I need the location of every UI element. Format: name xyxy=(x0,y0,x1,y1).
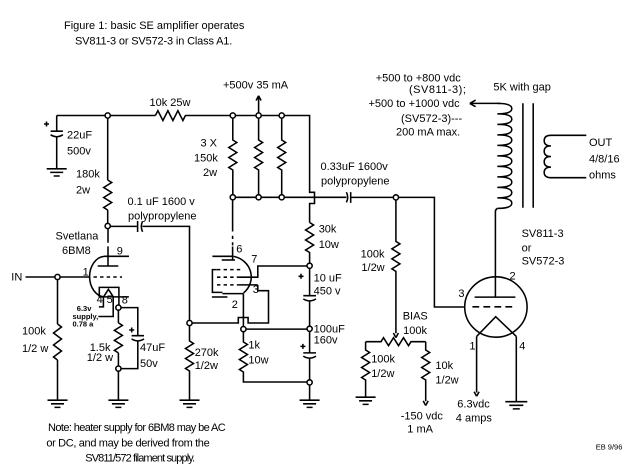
svg-text:100k: 100k xyxy=(22,326,46,338)
resistor 180k 2w xyxy=(104,180,112,210)
svg-text:8: 8 xyxy=(122,295,128,307)
capacitor C 22uF 500v plus sign xyxy=(44,122,49,127)
node junction 100uF bottom / 1k xyxy=(307,380,312,385)
svg-text:Svetlana: Svetlana xyxy=(56,231,100,243)
node junction B+ rail / 150k a xyxy=(230,113,235,118)
wire 0.33uF to output grid node xyxy=(351,196,393,198)
capacitor 100uF 160v plus sign xyxy=(300,344,305,349)
ground below 100uF xyxy=(300,400,320,407)
arrow -150vdc xyxy=(423,401,428,406)
svg-text:(SV811-3);: (SV811-3); xyxy=(409,84,466,96)
node junction pentode cathode / 1k xyxy=(241,327,246,332)
pentode U1b screen pin 7 wire xyxy=(239,266,307,277)
capacitor 47uF 50v plus sign xyxy=(129,328,134,333)
svg-text:4: 4 xyxy=(519,341,525,353)
node junction IN / 100k xyxy=(55,274,60,279)
capacitor 10uF 450v plus sign xyxy=(299,274,304,279)
svg-text:1/2w: 1/2w xyxy=(371,368,394,380)
svg-text:0.78 a: 0.78 a xyxy=(73,320,95,329)
svg-text:200 mA max.: 200 mA max. xyxy=(396,127,460,139)
node junction output grid xyxy=(393,195,398,200)
capacitor 10uF 450v xyxy=(303,268,316,326)
svg-text:polypropylene: polypropylene xyxy=(128,211,197,223)
svg-text:10k: 10k xyxy=(435,360,453,372)
resistor 1k 10w xyxy=(239,332,307,382)
wire 0.1uF to pentode grid node xyxy=(142,226,189,320)
node junction screen / 30k / 10uF xyxy=(307,263,312,268)
potentiometer BIAS 100k xyxy=(366,338,426,346)
wire 100uF node to ground xyxy=(309,385,311,400)
svg-text:5: 5 xyxy=(107,294,113,306)
triode U1a plate lead pin 9 xyxy=(107,229,109,266)
triode U1a envelope arc xyxy=(90,256,104,297)
ground below 22uF xyxy=(47,169,67,176)
node junction B+ rail / 150k b xyxy=(256,113,261,118)
svg-text:Note: heater supply for 6BM8 m: Note: heater supply for 6BM8 may be AC xyxy=(48,422,226,434)
wire top B+ rail left xyxy=(57,115,156,117)
node junction plate rail b xyxy=(256,195,261,200)
svg-text:4: 4 xyxy=(97,294,103,306)
svg-text:100k: 100k xyxy=(371,354,395,366)
wire pin8 to 1.5k xyxy=(117,310,119,323)
triode U1a grid dashed line pin 1 xyxy=(94,276,123,278)
wire pin8 to 47uF xyxy=(121,308,138,336)
resistor 100k 1/2w output grid xyxy=(392,200,400,333)
svg-text:100k: 100k xyxy=(403,325,427,337)
resistor 100k 1/2w bias left xyxy=(362,342,370,397)
pentode U1b envelope top stub xyxy=(212,255,233,257)
svg-text:2w: 2w xyxy=(76,185,90,197)
wire grid node to SV811 grid pin 3 xyxy=(399,197,464,307)
node junction 10uF / 100uF / cathode wire xyxy=(307,326,312,331)
svg-text:1/2 w: 1/2 w xyxy=(22,343,48,355)
wire pentode cathode to 100uF node xyxy=(246,328,307,330)
triode U1a cathode bracket xyxy=(99,287,119,305)
pentode U1b grid dashed row 1 xyxy=(217,269,242,271)
svg-text:1: 1 xyxy=(469,341,475,353)
svg-text:SV811/572 filament supply.: SV811/572 filament supply. xyxy=(85,453,195,465)
svg-text:SV572-3: SV572-3 xyxy=(522,256,565,268)
svg-text:polypropylene: polypropylene xyxy=(321,176,390,188)
svg-text:+500v 35 mA: +500v 35 mA xyxy=(223,80,289,92)
tube SV811-3 grid dashed line pin 3 xyxy=(472,306,514,308)
svg-text:OUT: OUT xyxy=(589,137,613,149)
tube SV811-3 plate bar pin 2 xyxy=(475,296,516,298)
svg-text:22uF: 22uF xyxy=(67,130,92,142)
svg-text:1k: 1k xyxy=(248,340,260,352)
svg-text:+500 to +800 vdc: +500 to +800 vdc xyxy=(376,73,462,85)
pentode U1b cathode line xyxy=(222,293,243,295)
svg-text:150k: 150k xyxy=(194,153,218,165)
tube SV811-3 envelope circle xyxy=(465,277,527,337)
triode U1a heater triangle xyxy=(104,289,114,296)
pentode U1b grid bracket xyxy=(212,270,222,293)
arrow transformer primary top to supply text xyxy=(470,100,500,107)
wire cathode node to ground xyxy=(117,371,119,400)
resistor 10k 25w xyxy=(155,111,185,121)
svg-text:10 uF: 10 uF xyxy=(314,273,342,285)
wire secondary top lead OUT xyxy=(551,134,586,136)
node junction pentode grid / 270k xyxy=(187,320,192,325)
wire pentode grid return with jog over cathode xyxy=(192,285,268,323)
resistor 100k 1/2w input xyxy=(54,324,62,360)
pentode U1b grid dashed row 3 xyxy=(217,284,239,286)
node junction cathode pin 8 xyxy=(116,305,121,310)
triode U1a heater pin 5 lead xyxy=(98,297,113,317)
wire filament pin 4 lead xyxy=(515,336,517,401)
svg-text:50v: 50v xyxy=(140,358,158,370)
capacitor C 22uF 500v xyxy=(51,116,63,169)
svg-text:160v: 160v xyxy=(314,335,338,347)
svg-text:SV811-3 or SV572-3 in Class A1: SV811-3 or SV572-3 in Class A1. xyxy=(75,36,232,48)
node junction B+ rail / 150k c xyxy=(279,113,284,118)
svg-text:EB 9/96: EB 9/96 xyxy=(596,443,623,452)
svg-text:BIAS: BIAS xyxy=(403,311,428,323)
capacitor 0.33uF 1600v polypropylene xyxy=(346,192,350,203)
pentode U1b cathode pin 2 lead xyxy=(242,294,244,327)
pentode U1b envelope bottom stub xyxy=(212,296,228,298)
node junction 180k / 0.1uF / triode plate xyxy=(105,223,110,228)
ground below bias 100k xyxy=(356,397,376,404)
svg-text:(SV572-3)---: (SV572-3)--- xyxy=(401,113,462,125)
pentode U1b plate bar xyxy=(222,259,235,261)
triode U1a plate bar xyxy=(98,265,119,267)
svg-text:10w: 10w xyxy=(319,239,339,251)
svg-text:2: 2 xyxy=(510,271,516,283)
node junction plate rail c xyxy=(279,195,284,200)
wire junction to 0.1uF cap xyxy=(110,225,137,227)
svg-text:1/2w: 1/2w xyxy=(361,262,384,274)
tube SV811-3 filament xyxy=(477,317,517,337)
pentode U1b grid dashed row 2 xyxy=(217,276,239,278)
arrow +500v supply xyxy=(256,96,261,113)
wire transformer primary bottom to plate xyxy=(495,208,497,297)
svg-text:7: 7 xyxy=(251,254,257,266)
capacitor 0.1uF 1600v polypropylene xyxy=(138,221,143,232)
svg-text:6BM8: 6BM8 xyxy=(62,245,91,257)
resistor 270k 1/2w xyxy=(186,326,194,400)
ground below cathode xyxy=(108,400,128,407)
ground below pin 4 xyxy=(505,402,527,409)
svg-text:100k: 100k xyxy=(361,249,385,261)
svg-text:-150 vdc: -150 vdc xyxy=(401,411,444,423)
svg-text:500v: 500v xyxy=(67,146,91,158)
svg-text:6: 6 xyxy=(236,244,242,256)
wire 180k bottom xyxy=(107,210,109,223)
ground below 270k xyxy=(180,400,200,407)
svg-text:10k 25w: 10k 25w xyxy=(150,97,191,109)
svg-text:or: or xyxy=(522,243,532,255)
svg-text:0.1 uF 1600 v: 0.1 uF 1600 v xyxy=(128,196,196,208)
resistor 10k 1/2w bias right xyxy=(422,342,430,402)
triode U1a envelope top stub xyxy=(104,255,129,257)
capacitor 100uF 160v xyxy=(303,331,316,379)
pentode U1b envelope arc xyxy=(234,256,252,293)
svg-text:2: 2 xyxy=(232,299,238,311)
svg-text:3: 3 xyxy=(253,284,259,296)
svg-text:10w: 10w xyxy=(248,355,268,367)
svg-text:Figure 1: basic SE amplifier o: Figure 1: basic SE amplifier operates xyxy=(64,20,245,32)
pentode U1b grid pin 3 wire solid xyxy=(239,284,258,286)
node junction plate rail a xyxy=(230,195,235,200)
svg-text:4/8/16: 4/8/16 xyxy=(589,153,620,165)
wire 100k to ground xyxy=(57,360,59,400)
svg-text:1/2 w: 1/2 w xyxy=(87,352,113,364)
wire top B+ rail right with jog over signal wire xyxy=(185,116,314,223)
svg-text:450 v: 450 v xyxy=(314,286,341,298)
svg-text:1/2w: 1/2w xyxy=(195,360,218,372)
svg-text:1/2w: 1/2w xyxy=(435,375,458,387)
svg-text:270k: 270k xyxy=(195,347,219,359)
svg-text:3: 3 xyxy=(458,288,464,300)
svg-text:IN: IN xyxy=(11,272,22,284)
svg-text:SV811-3: SV811-3 xyxy=(522,228,564,240)
svg-text:180k: 180k xyxy=(76,169,100,181)
arrow bias pot wiper xyxy=(393,333,398,338)
triode U1a heater pin 4 lead xyxy=(99,297,104,307)
svg-text:6.3vdc: 6.3vdc xyxy=(457,399,490,411)
ground below input 100k xyxy=(48,400,68,407)
svg-text:9: 9 xyxy=(117,246,123,258)
node junction top rail / 180k xyxy=(105,113,110,118)
svg-text:or DC, and may be derived from: or DC, and may be derived from the xyxy=(46,438,209,450)
transformer core xyxy=(523,103,533,208)
resistor 30k 10w xyxy=(306,223,314,264)
wire IN to triode grid xyxy=(26,276,90,278)
svg-text:5K with gap: 5K with gap xyxy=(493,82,550,94)
wire 1.5k bottom xyxy=(117,353,119,366)
inductor transformer secondary winding xyxy=(544,135,551,177)
svg-text:3 X: 3 X xyxy=(201,138,218,150)
wire filament pin 1 lead with arrow xyxy=(474,336,479,396)
resistor 1.5k 1/2w xyxy=(114,323,122,353)
svg-text:4 amps: 4 amps xyxy=(456,413,493,425)
resistor 150k 2w a xyxy=(229,118,237,195)
svg-text:0.33uF 1600v: 0.33uF 1600v xyxy=(321,161,389,173)
wire secondary bottom lead OUT xyxy=(551,177,586,179)
pentode U1b plate lead pin 6 xyxy=(232,200,234,260)
svg-text:1 mA: 1 mA xyxy=(407,424,433,436)
wire plate node rail xyxy=(233,196,347,198)
svg-text:+500 to +1000 vdc: +500 to +1000 vdc xyxy=(369,98,461,110)
wire 180k top xyxy=(107,118,109,180)
svg-text:47uF: 47uF xyxy=(140,342,165,354)
svg-text:2w: 2w xyxy=(203,167,217,179)
resistor 150k 2w b xyxy=(255,118,263,195)
inductor transformer primary winding xyxy=(497,103,512,208)
svg-text:30k: 30k xyxy=(319,224,337,236)
resistor 150k 2w c xyxy=(278,118,286,195)
svg-text:ohms: ohms xyxy=(589,170,616,182)
node junction 1.5k / 47uF bottom xyxy=(116,366,121,371)
capacitor 47uF 50v xyxy=(121,336,144,369)
wire 100k input resistor top xyxy=(57,280,59,324)
svg-text:1: 1 xyxy=(83,267,89,279)
triode U1a envelope bottom stub xyxy=(99,296,129,298)
